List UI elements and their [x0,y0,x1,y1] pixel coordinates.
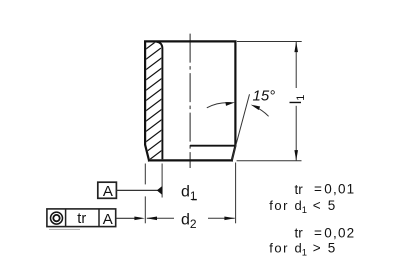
l1 arrow top [294,42,298,53]
d2 left extension line [144,164,146,185]
l1 arrow bottom [294,150,298,161]
svg-text:=: = [314,182,322,197]
feature control frame (concentricity tr A) [47,209,116,227]
d2 dimension line right part with arrow [208,217,235,219]
bore line d1 (left wall inner edge) [156,42,162,160]
faint scan artifact line [49,228,80,230]
datum A box [98,182,117,198]
concentricity symbol [51,212,63,224]
angular dimension arc, right segment with arrow [254,106,269,116]
svg-text:A: A [103,183,113,200]
svg-text:5: 5 [328,241,336,256]
svg-text:for: for [269,241,289,256]
d2 dimension line left part with arrow [147,217,174,219]
svg-text:tr: tr [295,226,304,241]
svg-text:for: for [269,198,289,213]
fcf leader with arrow to d2 extension line [116,217,137,219]
chamfer edge line (right half) [190,145,235,147]
15deg chamfer leader (extended chamfer line) [232,94,250,160]
l1 top extension line [237,41,302,43]
svg-text:<: < [313,198,321,213]
l1 bottom extension line [237,160,302,162]
centerline (axis) [189,34,191,168]
svg-text:0,01: 0,01 [324,182,355,197]
svg-text:15°: 15° [253,87,276,104]
svg-text:tr: tr [77,211,86,227]
svg-text:>: > [313,241,321,256]
svg-text:tr: tr [295,182,304,197]
part outline (bushing body) [145,41,235,160]
svg-text:A: A [103,211,113,228]
d2 right extension line [235,163,237,224]
svg-text:0,02: 0,02 [324,226,355,241]
l1 dimension line [295,42,297,89]
datum A triangle [157,186,162,195]
datum A leader [116,189,157,191]
d1 extension line [161,164,163,198]
svg-text:=: = [314,226,322,241]
angular dimension arc, left segment with arrow [207,103,231,108]
svg-text:5: 5 [328,198,336,213]
hatching (sectioned left wall) [138,30,172,189]
